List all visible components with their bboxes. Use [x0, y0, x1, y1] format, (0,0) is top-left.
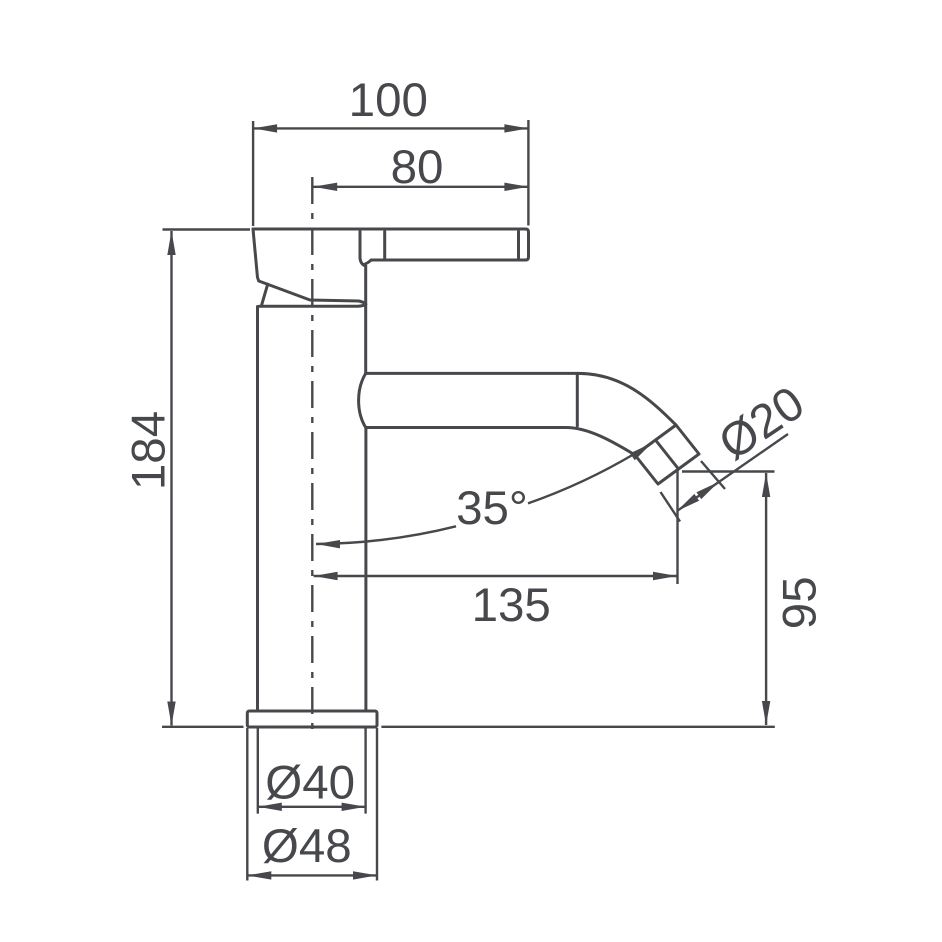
nozzle middle line — [656, 440, 679, 469]
svg-text:Ø48: Ø48 — [262, 820, 352, 873]
dimension line 100 — [253, 127, 528, 129]
arrow diameter20 lower — [675, 494, 700, 515]
extension line diameter40-right — [364, 728, 366, 814]
lever neck front joint line — [383, 232, 386, 260]
lever neck back line with hook — [360, 232, 366, 267]
dimension line diameter40 — [258, 806, 366, 808]
svg-text:35°: 35° — [456, 482, 528, 535]
dimension line 80 — [313, 186, 528, 188]
arrow 80 right — [504, 183, 528, 191]
extension line 100/80-right — [527, 120, 529, 226]
svg-text:95: 95 — [773, 576, 826, 629]
arrow arc right at nozzle — [630, 440, 654, 461]
arrow diameter20 upper — [696, 479, 721, 500]
svg-text:135: 135 — [472, 579, 551, 632]
arrow 100 left — [253, 124, 277, 132]
extension line diameter48-left — [246, 728, 248, 881]
extension line base-right — [381, 726, 774, 728]
arrow 135 left — [314, 572, 338, 580]
svg-text:80: 80 — [391, 141, 444, 194]
extension line from nozzle down to 135 — [676, 470, 678, 584]
body inner notch line — [262, 284, 268, 304]
dimension line 184 — [170, 231, 172, 726]
extension line 184-top — [163, 228, 251, 230]
arrow arc left — [316, 540, 340, 549]
nozzle outline — [635, 425, 699, 484]
extension line base-left — [162, 726, 244, 728]
angle arc 35 right piece — [528, 443, 652, 503]
arrow 184 top — [167, 231, 175, 255]
dimension line diameter 20 — [677, 434, 788, 511]
svg-text:184: 184 — [122, 411, 175, 490]
spout cut line — [576, 375, 579, 427]
faucet body top line — [253, 228, 526, 231]
column right edge lower — [364, 429, 367, 712]
dimension line diameter48 — [247, 874, 377, 876]
spout inner bend curve — [566, 428, 635, 456]
arrow 184 bottom — [167, 702, 175, 726]
nozzle extension segment 2 — [661, 492, 681, 522]
column top line — [259, 305, 365, 307]
extension line diameter48-right — [376, 728, 378, 881]
lever end cap inner line — [517, 232, 520, 259]
body underside slanted line — [259, 281, 366, 304]
column right edge upper — [364, 266, 367, 373]
arrow diameter48 right — [353, 871, 377, 879]
arrow 135 right — [653, 572, 677, 580]
arrow 80 left — [313, 183, 337, 191]
lever underside with left curl — [364, 260, 526, 265]
arrow 100 right — [504, 124, 528, 132]
extension line diameter40-left — [257, 728, 259, 814]
arrow diameter48 left — [247, 871, 271, 879]
column left edge — [256, 307, 259, 712]
spout bottom line — [366, 426, 566, 429]
spout outer bend curve — [578, 373, 676, 425]
lever right end cap outer edge — [526, 229, 529, 260]
extension line 100-left — [252, 121, 254, 226]
arrow 95 bottom — [762, 701, 770, 725]
dimension line 95 — [765, 473, 767, 725]
nozzle extension segment 1 — [701, 461, 725, 489]
angle arc 35 left piece — [316, 526, 456, 544]
spout top line — [366, 372, 578, 375]
svg-text:100: 100 — [349, 74, 428, 127]
arrow diameter40 right — [342, 803, 366, 811]
faucet body left edge — [253, 229, 259, 281]
arrow diameter40 left — [258, 803, 282, 811]
centerline (dashed) of column — [311, 177, 313, 731]
extension line nozzle level horizontal — [682, 470, 775, 472]
arrow 95 top — [762, 473, 770, 497]
svg-text:Ø40: Ø40 — [265, 757, 355, 810]
dimension line 135 — [314, 575, 677, 577]
base flange — [247, 711, 377, 727]
spout left cap bulge — [359, 373, 366, 427]
